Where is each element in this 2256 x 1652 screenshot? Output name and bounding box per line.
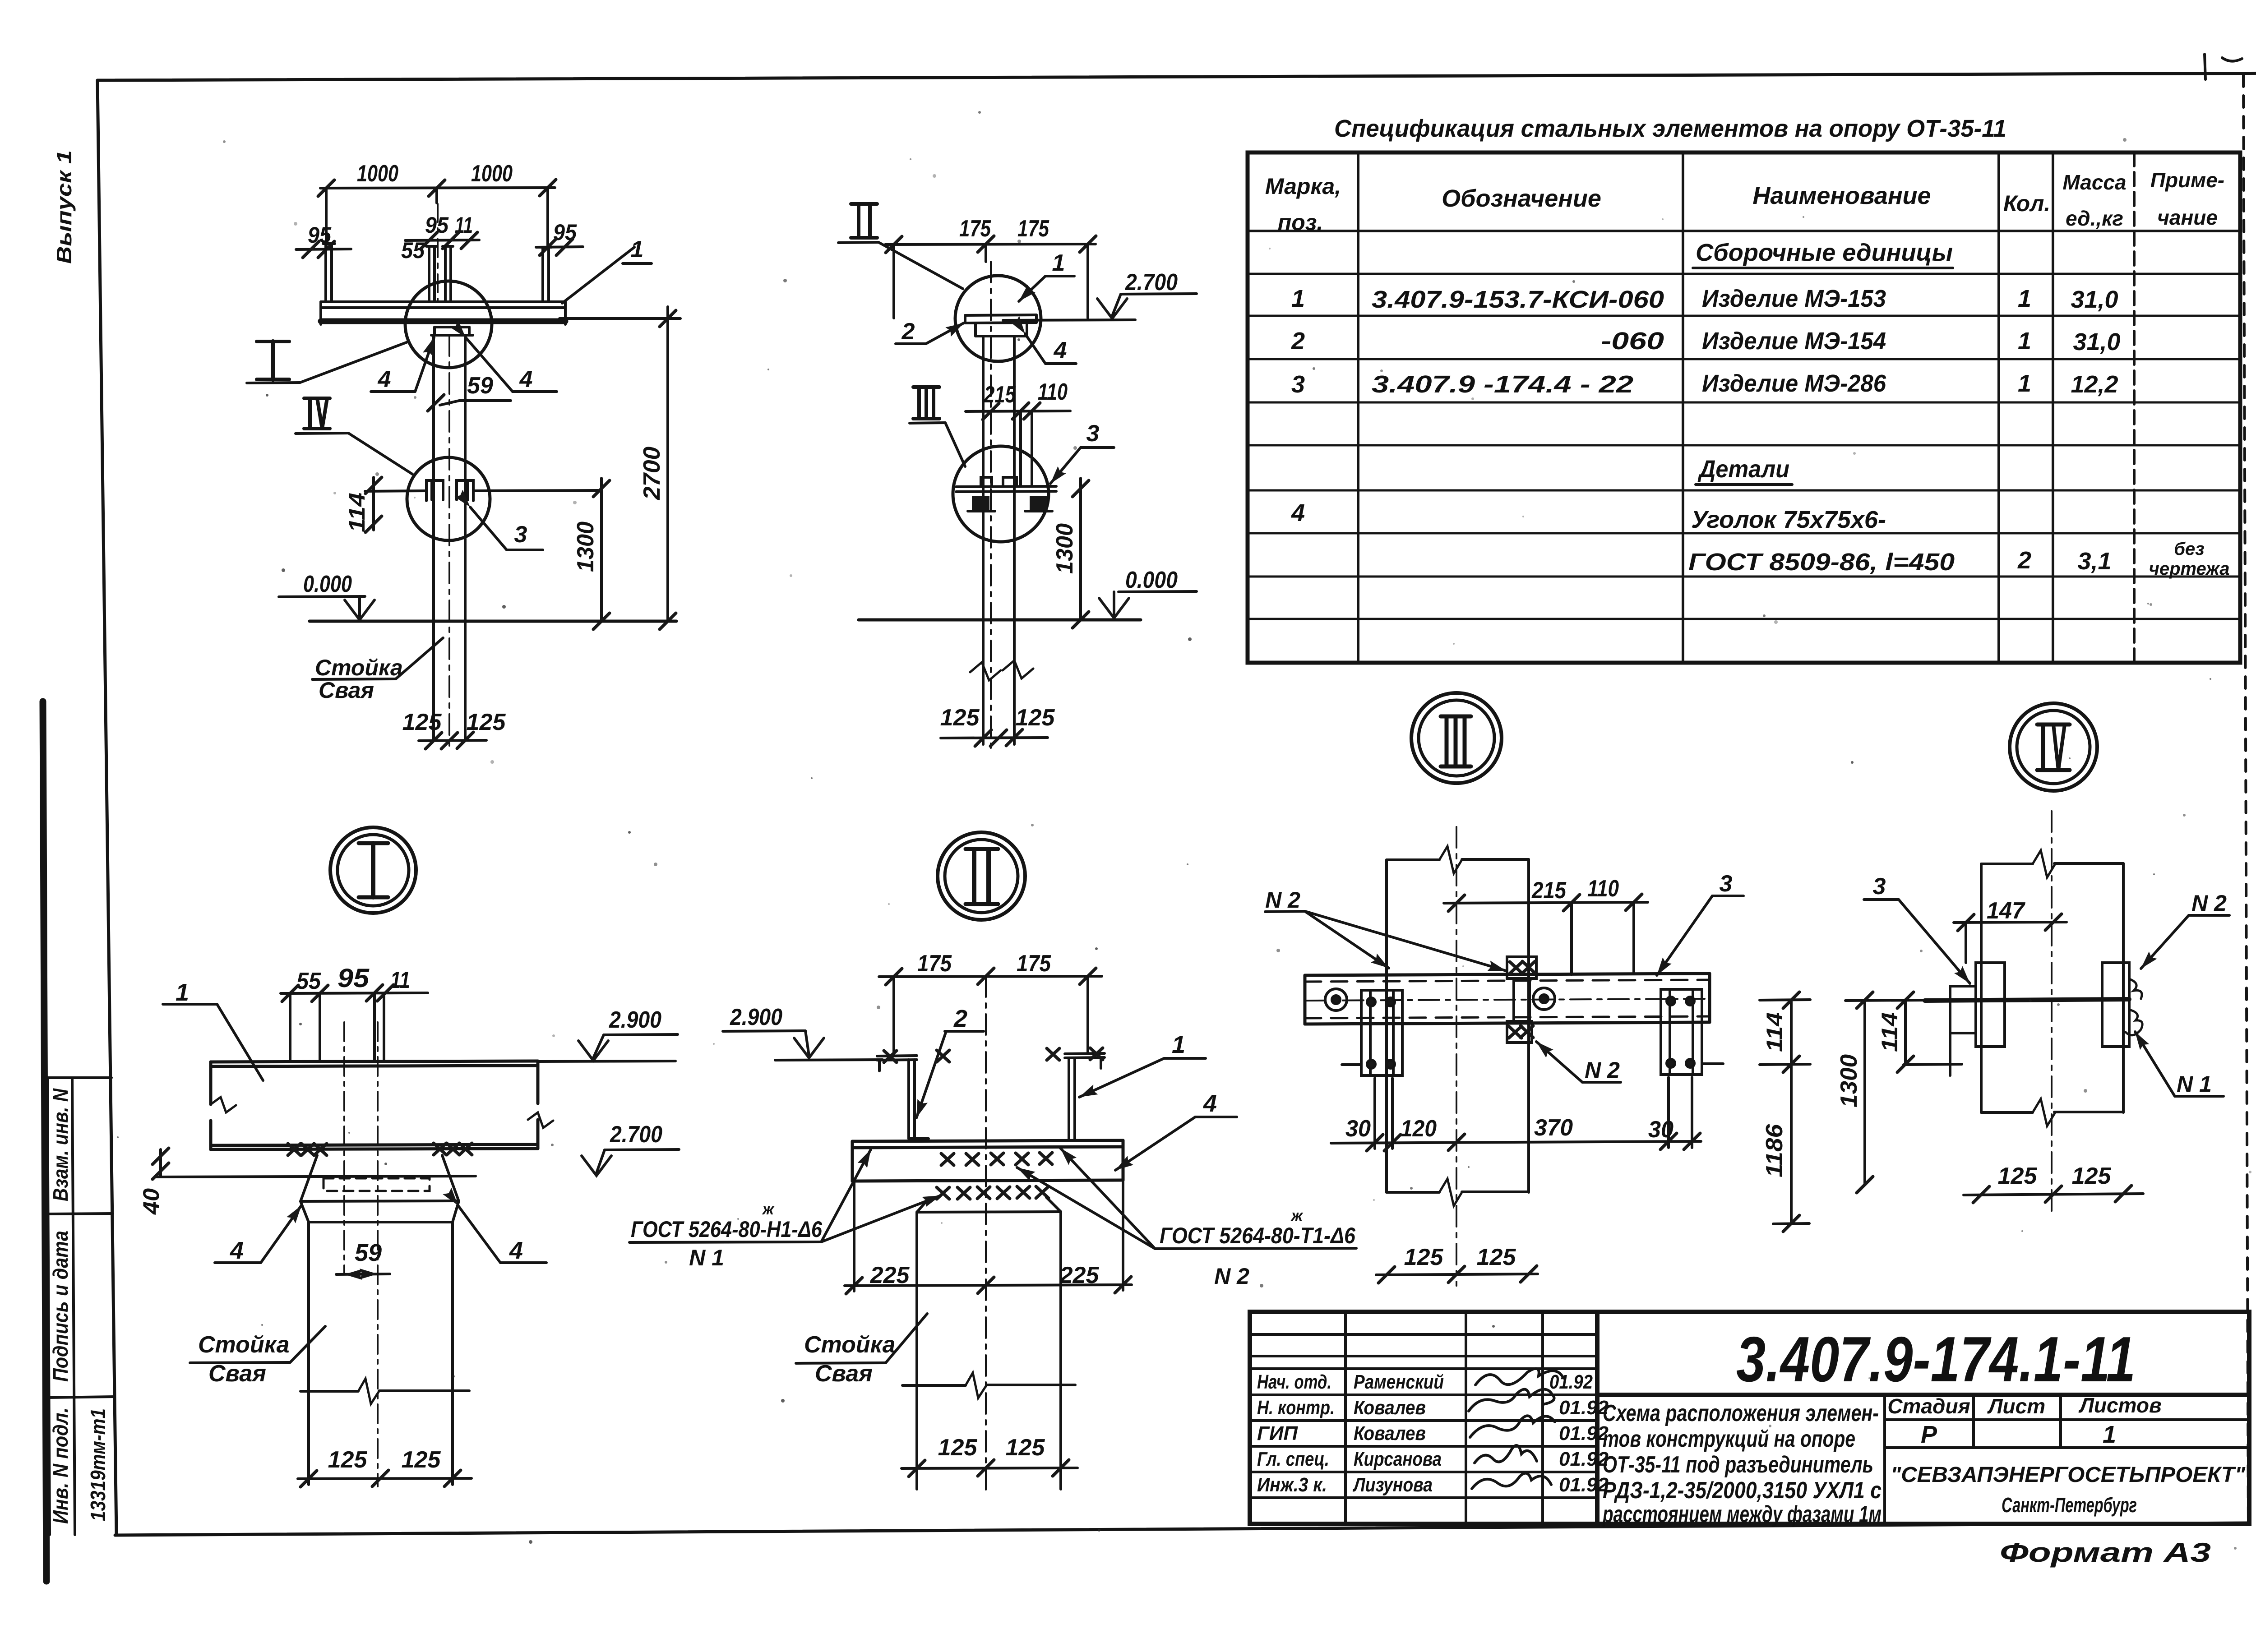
svg-text:Изделие МЭ-286: Изделие МЭ-286: [1702, 370, 1886, 397]
svg-text:175: 175: [959, 216, 991, 242]
svg-text:125: 125: [940, 705, 980, 731]
svg-text:31,0: 31,0: [2071, 286, 2118, 313]
svg-text:59: 59: [467, 373, 493, 399]
svg-text:Стойка: Стойка: [315, 655, 403, 680]
svg-text:Гл. спец.: Гл. спец.: [1257, 1448, 1329, 1470]
svg-text:2: 2: [953, 1005, 967, 1032]
svg-text:3.407.9 -174.4 - 22: 3.407.9 -174.4 - 22: [1372, 371, 1633, 398]
svg-text:Выпуск 1: Выпуск 1: [52, 150, 76, 264]
svg-text:3.407.9-153.7-КСИ-060: 3.407.9-153.7-КСИ-060: [1372, 286, 1664, 313]
svg-text:ГОСТ 5264-80-Т1-Δ6: ГОСТ 5264-80-Т1-Δ6: [1160, 1223, 1356, 1248]
svg-text:Свая: Свая: [319, 678, 374, 703]
svg-text:Лизунова: Лизунова: [1352, 1474, 1433, 1496]
svg-text:1: 1: [631, 236, 644, 263]
svg-text:01.92: 01.92: [1559, 1448, 1609, 1470]
svg-text:Формат А3: Формат А3: [2000, 1537, 2211, 1568]
svg-text:ед.,кг: ед.,кг: [2066, 207, 2123, 230]
svg-text:1: 1: [2018, 370, 2031, 397]
svg-text:4: 4: [1203, 1090, 1217, 1117]
svg-text:Схема расположения элемен-: Схема расположения элемен-: [1603, 1400, 1879, 1426]
svg-text:Спецификация стальных элементо: Спецификация стальных элементов на опору…: [1334, 115, 2006, 142]
svg-text:Сборочные единицы: Сборочные единицы: [1696, 239, 1953, 266]
svg-text:Стойка: Стойка: [804, 1332, 896, 1358]
svg-text:3: 3: [1086, 420, 1100, 447]
svg-text:Свая: Свая: [815, 1361, 873, 1387]
svg-text:59: 59: [355, 1239, 382, 1266]
svg-text:Инж.3 к.: Инж.3 к.: [1257, 1474, 1327, 1496]
svg-text:1: 1: [1052, 250, 1065, 276]
svg-text:2.900: 2.900: [730, 1004, 782, 1030]
svg-text:1300: 1300: [573, 521, 599, 572]
svg-text:125: 125: [402, 709, 442, 735]
svg-text:расстоянием между фазами 1м: расстоянием между фазами 1м: [1602, 1501, 1882, 1527]
svg-text:Р: Р: [1921, 1421, 1937, 1448]
svg-text:Лист: Лист: [1987, 1394, 2045, 1418]
svg-text:Ковалев: Ковалев: [1354, 1422, 1426, 1444]
svg-text:125: 125: [328, 1447, 368, 1473]
svg-text:N 2: N 2: [1214, 1264, 1249, 1289]
svg-text:01.92: 01.92: [1549, 1371, 1593, 1393]
svg-text:-060: -060: [1601, 328, 1664, 355]
svg-text:0.000: 0.000: [303, 571, 352, 597]
svg-text:Н. контр.: Н. контр.: [1257, 1397, 1335, 1419]
svg-text:147: 147: [1987, 898, 2025, 924]
svg-text:Ковалев: Ковалев: [1354, 1397, 1426, 1419]
svg-text:Раменский: Раменский: [1354, 1371, 1444, 1393]
svg-text:Свая: Свая: [208, 1361, 266, 1387]
svg-text:3,1: 3,1: [2077, 548, 2111, 575]
svg-text:31,0: 31,0: [2073, 328, 2120, 355]
svg-text:01.92: 01.92: [1559, 1474, 1609, 1496]
svg-text:175: 175: [1017, 951, 1051, 977]
svg-text:120: 120: [1401, 1116, 1437, 1142]
svg-text:4: 4: [1291, 499, 1305, 526]
svg-text:40: 40: [139, 1188, 164, 1215]
svg-text:N 1: N 1: [689, 1245, 724, 1270]
svg-text:30: 30: [1345, 1116, 1371, 1142]
svg-text:чание: чание: [2157, 206, 2218, 229]
svg-text:2.700: 2.700: [610, 1121, 662, 1148]
svg-text:N 2: N 2: [1265, 887, 1300, 913]
svg-text:Детали: Детали: [1697, 456, 1789, 483]
svg-text:Подпись и дата: Подпись и дата: [49, 1231, 72, 1382]
svg-text:95: 95: [337, 964, 370, 993]
svg-text:125: 125: [1006, 1435, 1045, 1461]
svg-text:13319тм-т1: 13319тм-т1: [86, 1408, 110, 1521]
svg-text:4: 4: [1054, 337, 1067, 364]
svg-text:175: 175: [917, 951, 952, 977]
svg-text:175: 175: [1017, 216, 1049, 242]
svg-text:3: 3: [1873, 873, 1886, 900]
svg-text:N 2: N 2: [2191, 891, 2227, 916]
svg-text:Обозначение: Обозначение: [1442, 185, 1601, 212]
svg-text:125: 125: [1016, 705, 1055, 731]
svg-text:Масса: Масса: [2062, 171, 2126, 194]
svg-text:Инв. N подл.: Инв. N подл.: [49, 1407, 72, 1524]
svg-text:125: 125: [1998, 1163, 2038, 1189]
svg-text:1300: 1300: [1836, 1054, 1862, 1107]
svg-text:поз.: поз.: [1278, 210, 1323, 235]
svg-text:125: 125: [1404, 1244, 1444, 1270]
svg-text:"СЕВЗАПЭНЕРГОСЕТЬПРОЕКТ": "СЕВЗАПЭНЕРГОСЕТЬПРОЕКТ": [1891, 1463, 2246, 1487]
svg-text:Уголок 75х75х6-: Уголок 75х75х6-: [1691, 506, 1886, 533]
svg-text:РДЗ-1,2-35/2000,3150 УХЛ1 с: РДЗ-1,2-35/2000,3150 УХЛ1 с: [1603, 1477, 1882, 1504]
svg-text:Санкт-Петербург: Санкт-Петербург: [2002, 1493, 2137, 1517]
svg-text:1: 1: [2018, 328, 2031, 355]
svg-text:Кол.: Кол.: [2003, 191, 2050, 216]
svg-text:4: 4: [378, 366, 391, 392]
svg-text:2: 2: [901, 318, 915, 345]
svg-text:2: 2: [1291, 328, 1305, 355]
svg-text:Наименование: Наименование: [1752, 182, 1931, 209]
svg-text:1: 1: [1172, 1031, 1185, 1058]
svg-text:ГОСТ 8509-86, l=450: ГОСТ 8509-86, l=450: [1688, 549, 1955, 576]
svg-text:1: 1: [2103, 1421, 2116, 1448]
svg-text:Марка,: Марка,: [1265, 174, 1341, 199]
svg-text:370: 370: [1534, 1115, 1573, 1141]
svg-text:3: 3: [1291, 371, 1305, 398]
svg-text:3: 3: [514, 521, 527, 548]
svg-text:ж: ж: [1290, 1207, 1304, 1224]
svg-text:4: 4: [230, 1237, 244, 1264]
svg-text:1: 1: [176, 979, 189, 1006]
svg-text:1000: 1000: [357, 161, 398, 187]
svg-text:N 2: N 2: [1585, 1057, 1620, 1083]
svg-text:ж: ж: [762, 1201, 775, 1218]
svg-text:Стойка: Стойка: [198, 1332, 290, 1358]
svg-text:125: 125: [1477, 1244, 1516, 1270]
svg-text:Нач. отд.: Нач. отд.: [1257, 1371, 1331, 1393]
svg-text:Стадия: Стадия: [1887, 1394, 1970, 1418]
svg-text:ГИП: ГИП: [1257, 1422, 1298, 1444]
svg-text:Кирсанова: Кирсанова: [1354, 1448, 1442, 1470]
svg-text:2.900: 2.900: [609, 1007, 661, 1033]
svg-text:ГОСТ 5264-80-Н1-Δ6: ГОСТ 5264-80-Н1-Δ6: [631, 1217, 823, 1242]
svg-text:2: 2: [2017, 547, 2031, 574]
svg-text:2700: 2700: [639, 447, 665, 500]
svg-text:Изделие МЭ-153: Изделие МЭ-153: [1702, 285, 1886, 312]
svg-text:0.000: 0.000: [1125, 567, 1178, 593]
svg-text:без: без: [2174, 539, 2204, 559]
svg-text:125: 125: [2072, 1163, 2112, 1189]
svg-text:114: 114: [344, 493, 370, 532]
svg-text:1186: 1186: [1761, 1124, 1788, 1177]
svg-text:1300: 1300: [1052, 523, 1078, 574]
svg-text:1000: 1000: [471, 161, 513, 187]
svg-text:125: 125: [938, 1435, 978, 1461]
svg-text:1: 1: [1291, 285, 1305, 312]
svg-text:01.92: 01.92: [1559, 1397, 1609, 1419]
svg-text:125: 125: [402, 1447, 441, 1473]
svg-text:ОТ-35-11 под разъединитель: ОТ-35-11 под разъединитель: [1603, 1452, 1873, 1478]
svg-text:3.407.9-174.1-11: 3.407.9-174.1-11: [1736, 1324, 2136, 1395]
svg-text:Изделие МЭ-154: Изделие МЭ-154: [1702, 328, 1886, 355]
svg-text:215: 215: [1531, 877, 1567, 904]
svg-text:95: 95: [553, 220, 577, 245]
svg-text:114: 114: [1762, 1012, 1787, 1052]
svg-text:тов конструкций на опоре: тов конструкций на опоре: [1603, 1426, 1855, 1452]
svg-text:2.700: 2.700: [1125, 269, 1178, 295]
svg-text:12,2: 12,2: [2071, 371, 2118, 398]
svg-text:110: 110: [1587, 876, 1619, 902]
svg-text:114: 114: [1877, 1012, 1902, 1052]
svg-text:4: 4: [509, 1237, 523, 1264]
svg-text:3: 3: [1720, 871, 1733, 897]
svg-text:01.92: 01.92: [1559, 1422, 1609, 1444]
svg-text:11: 11: [390, 967, 410, 993]
svg-text:Приме-: Приме-: [2150, 168, 2224, 192]
svg-text:N 1: N 1: [2177, 1071, 2212, 1097]
svg-text:4: 4: [519, 366, 533, 392]
svg-text:55: 55: [296, 968, 321, 994]
svg-text:Листов: Листов: [2078, 1394, 2161, 1417]
svg-text:110: 110: [1038, 379, 1068, 405]
svg-text:Взам. инв. N: Взам. инв. N: [49, 1088, 72, 1201]
svg-text:чертежа: чертежа: [2149, 559, 2230, 579]
svg-text:1: 1: [2018, 285, 2031, 312]
